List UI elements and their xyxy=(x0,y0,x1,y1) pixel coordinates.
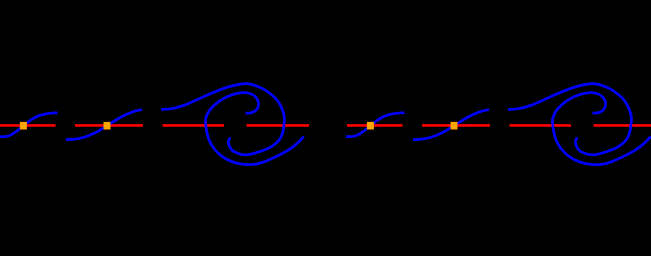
left panel xyxy=(0,84,309,165)
right panel (shifted one period) xyxy=(346,84,651,165)
